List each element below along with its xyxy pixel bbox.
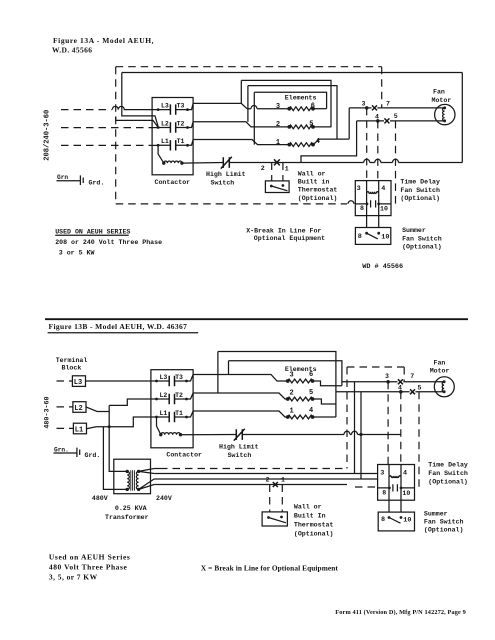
TD contact 8-10 13B xyxy=(389,476,401,488)
svg-text:L3: L3 xyxy=(160,374,168,381)
svg-text:10: 10 xyxy=(402,490,410,497)
svg-text:L3: L3 xyxy=(74,379,82,387)
svg-text:Grd.: Grd. xyxy=(85,452,101,459)
svg-text:6: 6 xyxy=(309,371,313,379)
svg-text:4: 4 xyxy=(403,469,407,477)
fan motor wire 1 xyxy=(348,108,350,139)
wire element4 right xyxy=(313,416,336,418)
wire T2 exit to elements xyxy=(188,122,290,128)
svg-text:T2: T2 xyxy=(175,392,183,399)
svg-text:7: 7 xyxy=(386,101,390,108)
svg-text:208 or 240 Volt Three Phase: 208 or 240 Volt Three Phase xyxy=(55,239,162,246)
svg-text:3: 3 xyxy=(362,101,366,108)
svg-text:10: 10 xyxy=(403,517,411,525)
high limit switch 13A xyxy=(182,162,223,165)
contactor coil 13A xyxy=(158,145,164,163)
svg-text:Form 411 (Version D), Mfg P/N: Form 411 (Version D), Mfg P/N 142272, Pa… xyxy=(335,609,466,616)
svg-text:2: 2 xyxy=(266,476,270,483)
svg-text:Switch: Switch xyxy=(211,180,235,187)
wire control loop top 13A xyxy=(122,72,463,74)
wire L2 to transformer drop xyxy=(86,407,109,412)
wire element6 right xyxy=(313,108,327,110)
svg-text:L1: L1 xyxy=(75,427,83,435)
contactor coil 13B xyxy=(157,417,161,435)
wire supply L2 phase dashed xyxy=(61,127,152,129)
wire element3 feed with hop xyxy=(247,108,289,110)
svg-text:Wall or: Wall or xyxy=(294,504,322,511)
svg-text:2: 2 xyxy=(290,390,294,398)
svg-text:1: 1 xyxy=(276,139,280,147)
svg-text:Grn: Grn xyxy=(57,174,68,181)
svg-text:2: 2 xyxy=(276,121,280,129)
svg-text:Wall or: Wall or xyxy=(298,171,326,178)
heater element in TD switch xyxy=(367,181,379,192)
svg-text:4: 4 xyxy=(309,407,313,415)
svg-text:480V: 480V xyxy=(92,495,108,502)
svg-text:High Limit: High Limit xyxy=(219,443,259,450)
break X terminal 3-7 xyxy=(365,106,369,110)
wire element6 step xyxy=(313,381,342,386)
svg-text:Elements: Elements xyxy=(285,95,317,102)
svg-text:X = Break in Line for Optional: X = Break in Line for Optional Equipment xyxy=(201,563,338,572)
svg-text:T1: T1 xyxy=(177,138,185,145)
thermostat box 13A xyxy=(265,181,289,193)
terminal L3 xyxy=(57,380,73,382)
time delay fan switch box 13A xyxy=(355,181,391,216)
TD contact 8-10 xyxy=(367,192,379,204)
terminal L1 xyxy=(57,427,74,429)
svg-text:1: 1 xyxy=(281,476,285,483)
transformer primary winding xyxy=(127,471,129,489)
svg-text:8: 8 xyxy=(381,516,385,524)
svg-text:L3: L3 xyxy=(161,102,169,109)
svg-text:3: 3 xyxy=(290,372,294,380)
svg-text:L1: L1 xyxy=(161,138,169,145)
thermostat tap 13B xyxy=(273,482,278,487)
wire T3 exit to elements 13B xyxy=(187,375,288,382)
svg-text:3: 3 xyxy=(357,185,361,193)
thermostat box 13B xyxy=(262,512,287,526)
section rule xyxy=(45,318,468,320)
wire T2 exit to elements 13B xyxy=(187,393,288,399)
svg-text:1: 1 xyxy=(290,408,294,416)
svg-text:8: 8 xyxy=(360,205,364,212)
svg-text:480 Volt Three Phase: 480 Volt Three Phase xyxy=(49,562,128,571)
fan motor wire 1 13B xyxy=(342,381,444,383)
svg-text:T1: T1 xyxy=(175,410,183,417)
svg-text:L2: L2 xyxy=(160,392,168,399)
svg-text:WD # 45566: WD # 45566 xyxy=(362,263,403,271)
svg-text:T2: T2 xyxy=(177,120,185,127)
contactor box 13B xyxy=(151,370,193,448)
svg-text:Built In: Built In xyxy=(294,513,326,520)
fan motor wire 2 xyxy=(357,120,445,122)
svg-text:4: 4 xyxy=(375,113,379,120)
dashed optional box 13A : top edge xyxy=(116,66,382,68)
dashed drops to TD switch 13B xyxy=(387,382,389,465)
svg-text:0.25 KVA: 0.25 KVA xyxy=(115,505,147,512)
svg-text:Built in: Built in xyxy=(298,179,330,186)
heater element in TD switch 13B xyxy=(389,465,401,476)
svg-text:L1: L1 xyxy=(160,410,168,417)
svg-text:(Optional): (Optional) xyxy=(402,244,442,251)
svg-text:Transformer: Transformer xyxy=(105,514,149,521)
svg-text:Contactor: Contactor xyxy=(166,451,202,458)
240V control lines xyxy=(160,468,347,470)
svg-text:Summer: Summer xyxy=(424,510,448,517)
svg-text:10: 10 xyxy=(380,206,388,213)
svg-text:Summer: Summer xyxy=(402,227,426,234)
wire L3 to contactor xyxy=(86,380,157,382)
wire element4 to motor line xyxy=(313,139,349,145)
svg-text:High Limit: High Limit xyxy=(206,171,246,178)
summer fan switch box 13B xyxy=(378,512,414,531)
svg-text:Fan Switch: Fan Switch xyxy=(400,187,440,194)
svg-text:L2: L2 xyxy=(161,120,169,127)
svg-text:Motor: Motor xyxy=(432,97,452,104)
svg-text:(Optional): (Optional) xyxy=(294,531,334,538)
svg-text:Contactor: Contactor xyxy=(155,179,191,186)
svg-text:Block: Block xyxy=(62,364,82,371)
wire transformer primary drops xyxy=(109,405,127,471)
svg-text:5: 5 xyxy=(394,113,398,120)
wire control bottom line (coil circuit) xyxy=(229,162,462,164)
thermostat tap: dashed drops terminals 2,1 xyxy=(272,163,283,181)
svg-text:Fan Switch: Fan Switch xyxy=(428,470,468,477)
svg-text:3: 3 xyxy=(385,373,389,380)
dashed optional box 13A : left edge xyxy=(115,67,117,204)
svg-text:3: 3 xyxy=(276,103,280,111)
svg-text:(Optional): (Optional) xyxy=(298,195,338,202)
fan motor wire 2 13B xyxy=(336,391,444,393)
svg-text:Fan: Fan xyxy=(434,359,446,366)
wires motor drops to 240V lines xyxy=(354,382,356,474)
svg-text:(Optional): (Optional) xyxy=(400,195,440,202)
svg-text:L2: L2 xyxy=(74,405,82,413)
svg-text:Figure 13A - Model AEUH,: Figure 13A - Model AEUH, xyxy=(53,36,154,45)
dashed optional box 13A : bottom edge xyxy=(116,203,347,205)
svg-text:USED ON AEUH SERIES: USED ON AEUH SERIES xyxy=(55,229,130,236)
svg-text:Fan Switch: Fan Switch xyxy=(424,518,464,525)
svg-text:5: 5 xyxy=(309,389,313,397)
svg-text:X-Break In Line For: X-Break In Line For xyxy=(246,227,321,234)
svg-text:Thermostat: Thermostat xyxy=(294,522,334,529)
svg-text:T3: T3 xyxy=(177,102,185,109)
svg-text:Time Delay: Time Delay xyxy=(428,462,468,469)
wire hops over TD dashed drops xyxy=(364,159,399,162)
transformer secondary winding xyxy=(136,471,138,489)
wire T3 exit to elements xyxy=(188,103,248,109)
svg-text:8: 8 xyxy=(382,490,386,497)
wire control tap from top xyxy=(122,73,158,127)
svg-text:8: 8 xyxy=(358,233,362,241)
dashed optional riser and top 13B xyxy=(346,367,348,469)
dashed line into TD box 13B xyxy=(355,486,378,488)
svg-text:4: 4 xyxy=(381,185,385,193)
terminal L2 xyxy=(57,406,73,408)
wire element5 step xyxy=(313,399,336,404)
svg-text:3, 5, or 7 KW: 3, 5, or 7 KW xyxy=(49,572,98,581)
time delay fan switch box 13B xyxy=(378,465,415,501)
svg-text:1: 1 xyxy=(285,166,289,173)
svg-text:Fan Switch: Fan Switch xyxy=(402,235,442,242)
svg-text:Thermostat: Thermostat xyxy=(298,187,338,194)
svg-text:(Optional): (Optional) xyxy=(428,479,468,486)
transformer secondary fan-out leads xyxy=(139,469,155,490)
nest: upper cross-feed wires 13A xyxy=(240,80,242,103)
svg-text:Grn.: Grn. xyxy=(54,446,69,453)
svg-text:Fan: Fan xyxy=(433,89,445,96)
svg-text:480-3-60: 480-3-60 xyxy=(43,396,51,428)
svg-text:10: 10 xyxy=(381,233,389,241)
svg-text:4: 4 xyxy=(398,384,402,391)
wire L2 to contactor xyxy=(109,399,156,405)
dashed drop to terminal 7 xyxy=(381,67,383,108)
connectors TD to summer 13B xyxy=(389,488,401,512)
nest: upper cross-feed wires 13B xyxy=(217,352,219,394)
svg-text:2: 2 xyxy=(261,165,265,172)
transformer 13B xyxy=(114,459,151,494)
svg-text:240V: 240V xyxy=(156,495,172,502)
svg-text:Switch: Switch xyxy=(228,452,252,459)
wire T1 exit to elements 13B xyxy=(187,411,288,417)
summer fan switch box 13A xyxy=(355,228,390,245)
transformer core xyxy=(131,470,135,490)
svg-text:Figure 13B - Model AEUH, W.D.: Figure 13B - Model AEUH, W.D. 46367 xyxy=(49,322,188,331)
wire supply L3 phase dashed xyxy=(61,109,112,111)
svg-text:Terminal: Terminal xyxy=(56,357,88,364)
high limit switch 13B xyxy=(181,434,237,436)
wire coil line to right w/ hops xyxy=(242,434,400,436)
wire L1 to contactor xyxy=(86,417,157,429)
contactor box 13A xyxy=(152,98,193,175)
wire control loop right edge xyxy=(461,73,463,163)
break X terminal 4-5 xyxy=(376,119,380,123)
svg-text:3: 3 xyxy=(380,469,384,477)
wire supply L1 phase dashed xyxy=(61,144,152,146)
svg-text:W.D. 45566: W.D. 45566 xyxy=(52,46,92,55)
svg-text:5: 5 xyxy=(418,384,422,391)
connectors TD to summer switch xyxy=(367,204,379,228)
wire T1 exit to elements xyxy=(188,140,290,146)
break X on control line xyxy=(274,159,280,165)
svg-text:Motor: Motor xyxy=(430,367,450,374)
svg-text:Grd.: Grd. xyxy=(89,180,105,187)
wire element5 right xyxy=(313,126,331,128)
dashed drops to time delay switch xyxy=(366,108,368,180)
svg-text:208/240-3-60: 208/240-3-60 xyxy=(44,110,52,161)
svg-text:Time Delay: Time Delay xyxy=(400,179,440,186)
svg-text:(Optional): (Optional) xyxy=(424,527,464,534)
svg-text:Optional Equipment: Optional Equipment xyxy=(254,235,325,242)
svg-text:T3: T3 xyxy=(175,374,183,381)
wire hop over verticals on L3 supply xyxy=(112,106,158,109)
svg-text:7: 7 xyxy=(410,373,414,380)
wire second control tap xyxy=(116,117,158,128)
svg-text:Used on AEUH Series: Used on AEUH Series xyxy=(49,553,131,562)
svg-text:3 or 5 KW: 3 or 5 KW xyxy=(59,249,95,256)
